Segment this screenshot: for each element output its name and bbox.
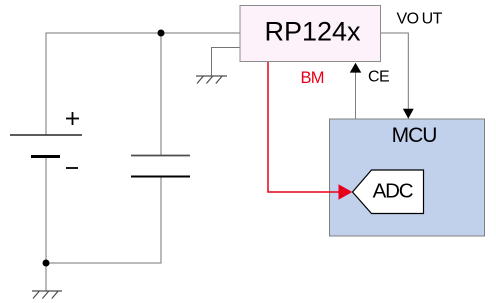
svg-text:BM: BM [301,69,324,87]
svg-text:RP124x: RP124x [264,17,361,47]
svg-text:VOUT: VOUT [397,11,443,28]
svg-text:MCU: MCU [392,124,437,147]
svg-text:ADC: ADC [373,180,414,203]
svg-text:CE: CE [368,69,389,86]
